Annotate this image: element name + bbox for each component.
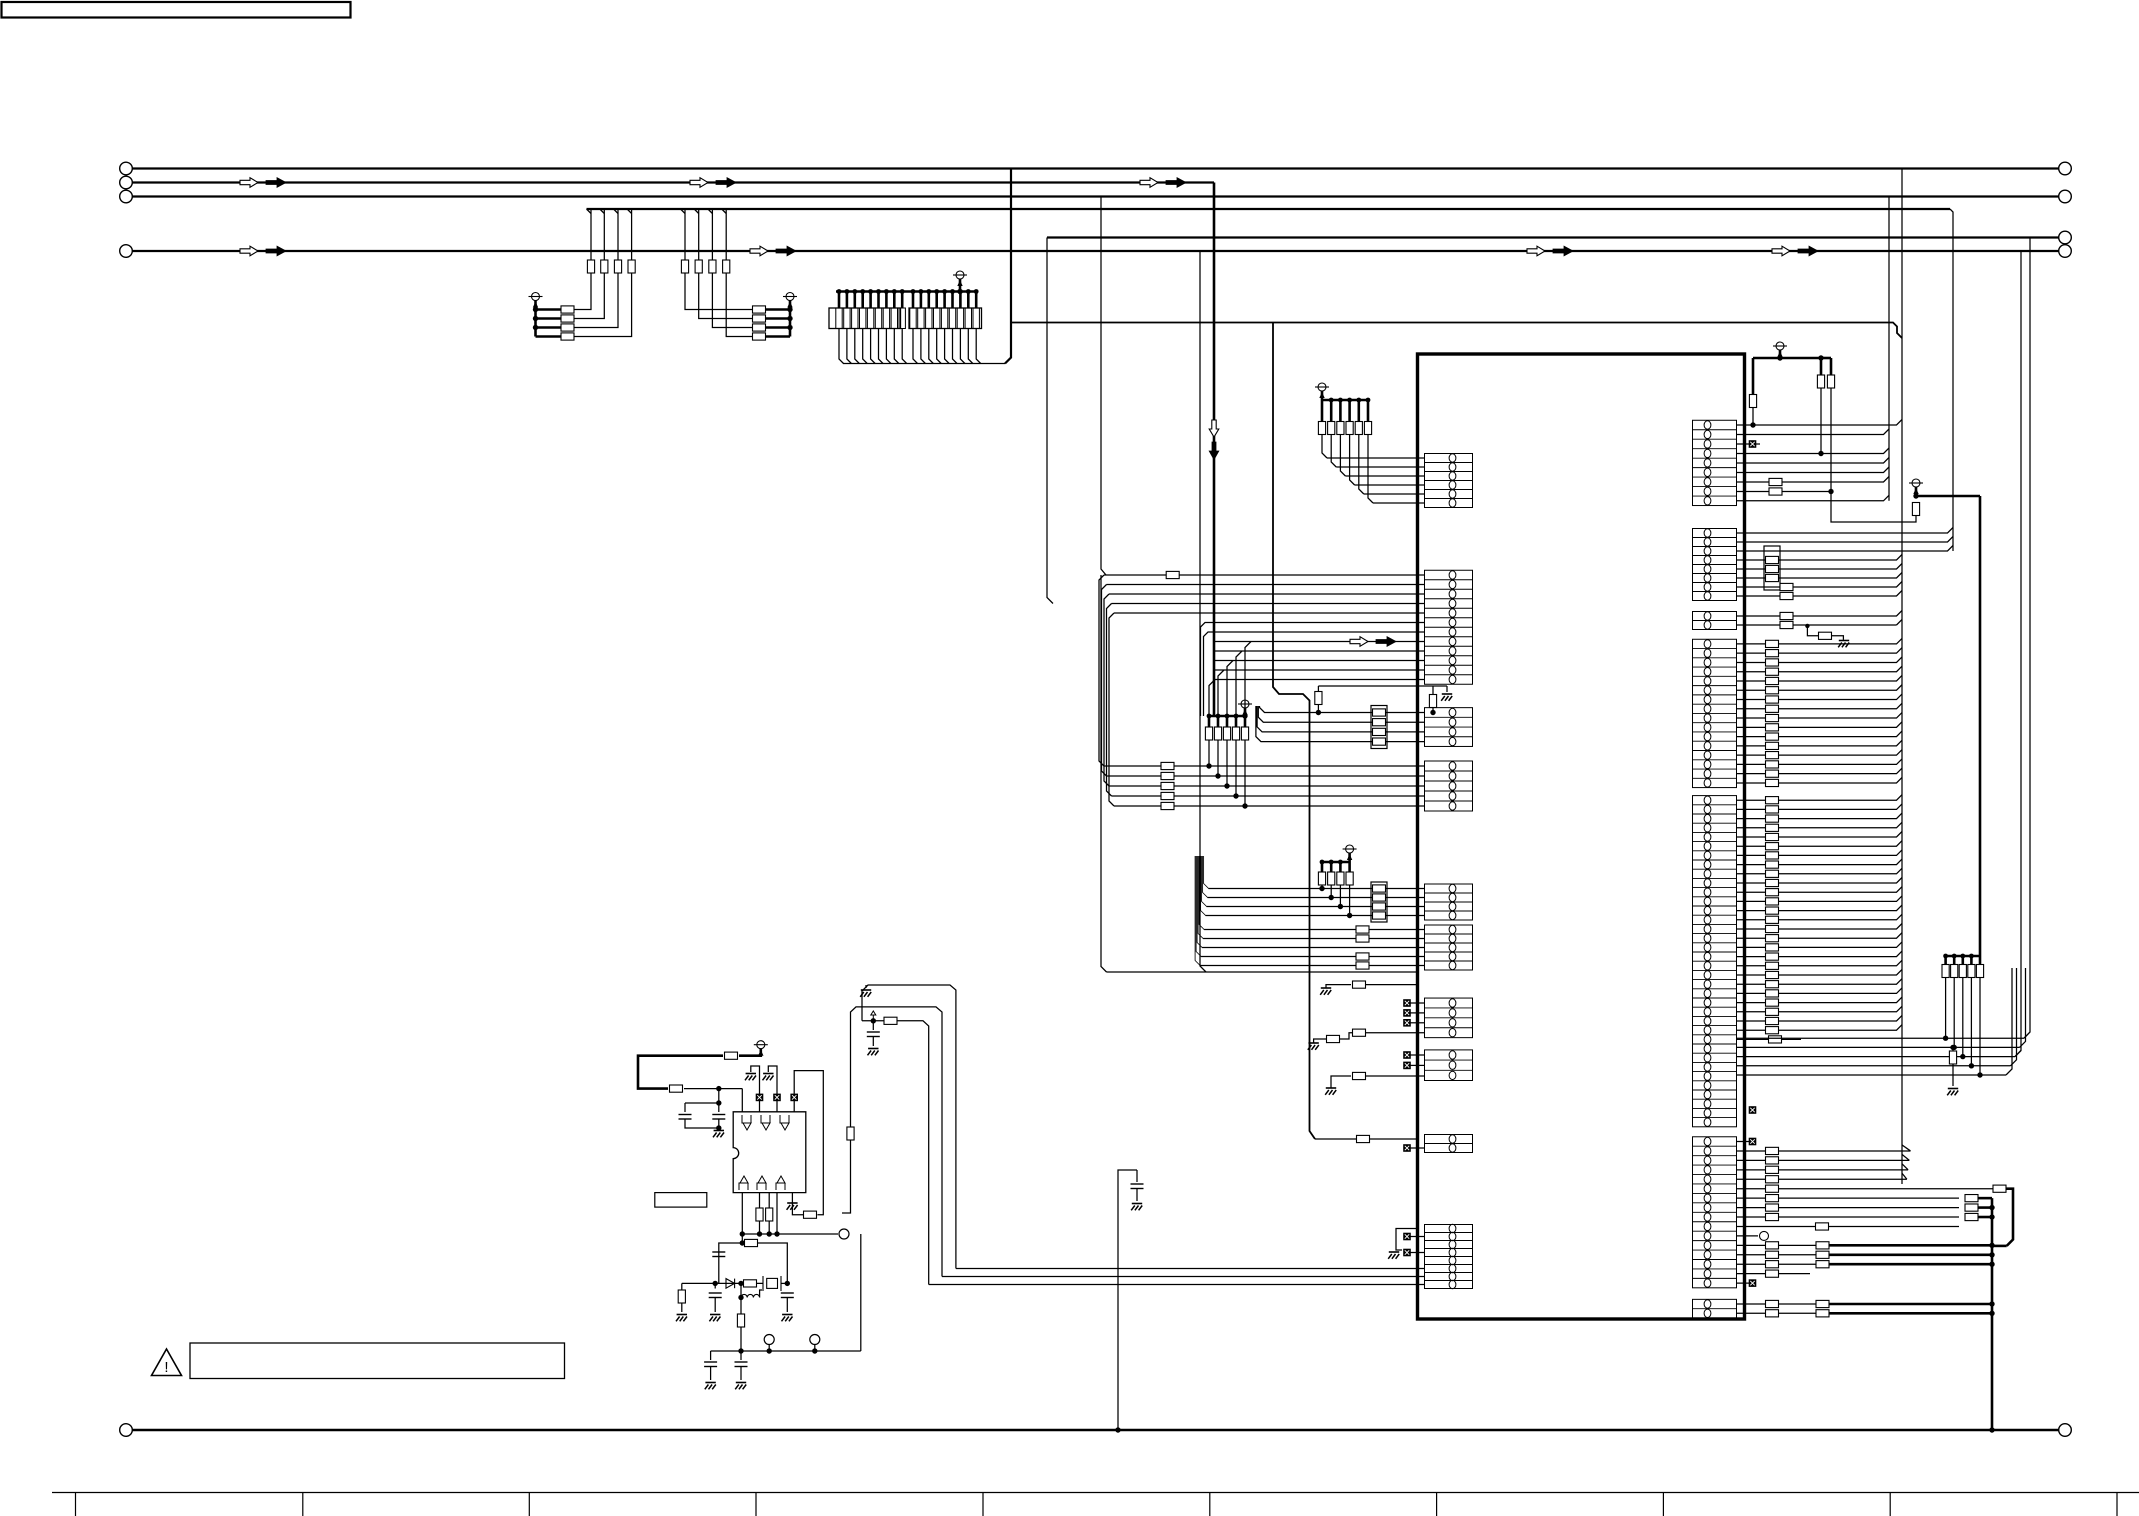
K-F heavy mid row bbox=[1737, 1254, 1817, 1256]
U2 pin1 wire bbox=[741, 1089, 743, 1112]
stub bbox=[893, 292, 896, 309]
dot bbox=[1366, 398, 1371, 403]
P2 bus vertical bbox=[789, 301, 792, 337]
dot bbox=[740, 1240, 745, 1245]
bottom table tick bbox=[1436, 1493, 1438, 1516]
K-E row wire + resistor bbox=[1737, 859, 1903, 865]
termination wire to collector bbox=[894, 329, 899, 364]
K-D row wire + resistor bbox=[1737, 768, 1903, 774]
resistor to ground below rows bbox=[1952, 1047, 1954, 1051]
wrap row wire bbox=[1737, 1037, 2025, 1039]
terminal L6 left bbox=[120, 245, 133, 258]
dot bbox=[852, 289, 857, 294]
ground-resistor net above J-G bbox=[1326, 985, 1351, 988]
K-A row1 wire into bus bbox=[1737, 420, 1903, 426]
termination resistor bar bbox=[875, 308, 881, 329]
K-E row wire + resistor bbox=[1737, 933, 1903, 939]
K-E row27 wire + resistor bbox=[1737, 1038, 1802, 1040]
testpoint TP3 bbox=[810, 1335, 820, 1345]
dot bbox=[950, 289, 955, 294]
K-F row 16 NC bbox=[1737, 1282, 1757, 1284]
B1 row 5 wire bbox=[1114, 612, 1425, 614]
K-E row wire + resistor bbox=[1737, 804, 1903, 810]
termination wire to collector bbox=[902, 329, 907, 364]
dot bbox=[892, 289, 897, 294]
dot bbox=[1960, 1054, 1965, 1059]
IC U1 outline bbox=[1418, 354, 1745, 1319]
arrow pair L2 a bbox=[240, 178, 258, 188]
wire down to B2 row bbox=[1235, 740, 1237, 796]
caution triangle bbox=[152, 1349, 182, 1376]
feed row C wire bbox=[929, 1284, 1425, 1286]
dot bbox=[1224, 783, 1229, 788]
B2 row 2 wire bbox=[1107, 775, 1425, 777]
down arrow pair on x1214 bbox=[1209, 420, 1219, 437]
termination resistor bar bbox=[965, 308, 971, 329]
K-A row9 wire bbox=[1737, 495, 1890, 501]
series resistor 2 bbox=[744, 1280, 757, 1287]
arrow pair L2 c bbox=[1140, 178, 1158, 188]
testpoint TP1 bbox=[839, 1229, 849, 1239]
pull-up resistor bbox=[1244, 716, 1247, 727]
junction dot bbox=[533, 307, 538, 312]
cap C-mid bbox=[1136, 1170, 1138, 1182]
K-D row wire + resistor bbox=[1737, 694, 1903, 700]
pull resistor bbox=[1330, 400, 1333, 422]
J-C resistor pack bbox=[1371, 706, 1387, 749]
no-connect stub bbox=[1411, 1236, 1425, 1238]
thick vertical x1992 to bottom rail bbox=[1991, 1198, 1994, 1430]
junction dot bbox=[787, 325, 792, 330]
K-D row wire + resistor bbox=[1737, 713, 1903, 719]
wire drop x1200 L6 to cross wire bbox=[1200, 251, 1206, 972]
stub bbox=[920, 292, 923, 309]
ground bbox=[782, 1314, 792, 1316]
K-B row wire + pack resistor bbox=[1737, 555, 1903, 561]
wire down to row bbox=[1979, 978, 1981, 1076]
bottom table tick bbox=[1209, 1493, 1211, 1516]
pack resistor bbox=[1373, 728, 1386, 735]
dot bbox=[884, 289, 889, 294]
connector K-C (2p) bbox=[1693, 612, 1737, 630]
bus bottom fan fillet bbox=[1902, 1173, 1907, 1179]
K-D row wire + resistor bbox=[1737, 675, 1903, 681]
pull resistor bbox=[1348, 400, 1351, 422]
group2 row 1 wire bbox=[685, 209, 790, 310]
big vertical bus x1902 from L1 bbox=[1901, 169, 1903, 1185]
dot bbox=[934, 289, 939, 294]
dot bbox=[1338, 398, 1343, 403]
stub bbox=[869, 292, 872, 309]
J-B lower row wire bbox=[1215, 679, 1425, 681]
wire down to B2 row bbox=[1226, 740, 1228, 786]
bus joint fillet bbox=[600, 209, 605, 214]
bottom rail wire bbox=[133, 1429, 2059, 1431]
bus joint fillet bbox=[627, 209, 632, 214]
pack resistor bbox=[1373, 894, 1386, 901]
bottom table tick bbox=[1889, 1493, 1891, 1516]
guard bus wire y322 bbox=[1011, 323, 1902, 339]
termination resistor bar bbox=[973, 308, 979, 329]
dot bbox=[1943, 954, 1948, 959]
U2 bottom pin wires bbox=[741, 1193, 743, 1243]
rail L5 bbox=[1047, 236, 2059, 238]
B2 row 1 wire bbox=[1104, 765, 1425, 767]
dot bbox=[1989, 1243, 1994, 1248]
K-A row6 wire bbox=[1737, 467, 1890, 473]
ground bbox=[714, 1130, 724, 1132]
dot bbox=[957, 289, 962, 294]
termination resistor bar bbox=[836, 308, 842, 329]
stub bbox=[877, 292, 880, 309]
termination resistor bar bbox=[844, 308, 850, 329]
series resistor on vertical bbox=[681, 260, 688, 273]
dot bbox=[1329, 860, 1334, 865]
wire drop x1047 L5 to bundle B1 bbox=[1047, 238, 1053, 604]
pack resistor bbox=[1373, 885, 1386, 892]
K-B row wire + pack resistor bbox=[1737, 573, 1903, 579]
K-F row wire + resistor bbox=[1737, 1169, 1909, 1171]
J-A row wire bbox=[1327, 457, 1425, 459]
K-E row wire + resistor bbox=[1737, 878, 1903, 884]
testpoint rail y1234 bbox=[742, 1233, 838, 1235]
K-E row wire + resistor bbox=[1737, 850, 1903, 856]
stub bbox=[975, 292, 978, 309]
B1 row1 resistor bbox=[1166, 571, 1179, 578]
inductor L1 bbox=[741, 1294, 760, 1297]
K-E row wire + resistor bbox=[1737, 887, 1903, 893]
termination top bus bbox=[836, 290, 978, 293]
wire drop x1011 L1 to header collector bbox=[1005, 169, 1011, 364]
stub bbox=[967, 292, 970, 309]
J-F row resistor bbox=[1356, 953, 1369, 960]
B1-B2 link vertical bbox=[1107, 604, 1112, 797]
termination wire to collector bbox=[929, 329, 934, 364]
wire down to row bbox=[1953, 978, 1955, 1048]
K-A row5 wire bbox=[1737, 458, 1890, 464]
K-E row wire + resistor bbox=[1737, 1025, 1903, 1031]
series resistor on vertical bbox=[709, 260, 716, 273]
series resistor bbox=[561, 324, 574, 331]
oscillator net bbox=[719, 1243, 743, 1283]
group1 row 3 wire bbox=[536, 209, 619, 328]
B1-B2 link vertical bbox=[1099, 575, 1104, 766]
rail riser to TP rail bbox=[860, 1234, 862, 1351]
K-E row wire + resistor bbox=[1737, 970, 1903, 976]
B1-B2 link vertical bbox=[1102, 585, 1107, 777]
K-D row wire + resistor bbox=[1737, 731, 1903, 737]
series resistor bbox=[753, 306, 766, 313]
termination wire to collector bbox=[968, 329, 973, 364]
osc row wire bbox=[682, 1282, 763, 1284]
J-E row wire bbox=[1204, 856, 1425, 889]
connector K-B (8p) bbox=[1693, 529, 1737, 601]
B2 row resistor bbox=[1161, 762, 1174, 769]
J-E resistor pack bbox=[1371, 882, 1387, 922]
rail L6 bbox=[133, 250, 2059, 252]
dot bbox=[1338, 860, 1343, 865]
termination resistor bar bbox=[899, 308, 905, 329]
J-F row resistor bbox=[1356, 926, 1369, 933]
dot bbox=[1225, 714, 1230, 719]
fan wire from bus up to row bbox=[1209, 680, 1215, 717]
terminal L6 right bbox=[2059, 245, 2072, 258]
connector J-G (4p) bbox=[1425, 998, 1473, 1038]
J-A row wire bbox=[1355, 484, 1425, 486]
dot bbox=[757, 1231, 762, 1236]
bus joint fillet bbox=[681, 209, 686, 214]
group1 row 4 wire bbox=[536, 209, 632, 337]
B2 row 3 wire bbox=[1109, 785, 1425, 787]
pull-up resistor bbox=[1235, 716, 1238, 727]
wrap row wire bbox=[1737, 1074, 2007, 1076]
dot bbox=[1989, 1427, 1994, 1432]
arrow pair L2 b bbox=[690, 178, 708, 188]
cap right bbox=[781, 1292, 794, 1294]
dot bbox=[1989, 1301, 1994, 1306]
J-B lower row wire bbox=[1215, 650, 1425, 652]
K-F row 10 with mid resistor bbox=[1737, 1225, 1960, 1227]
loop resistor bbox=[804, 1211, 817, 1218]
stub bbox=[885, 292, 888, 309]
stub bbox=[912, 292, 915, 309]
group1 row 1 wire bbox=[536, 209, 592, 310]
stub bbox=[927, 292, 930, 309]
K-D row wire + resistor bbox=[1737, 759, 1903, 765]
group2 row 2 wire bbox=[699, 209, 790, 319]
guard branch down x1273 with jog bbox=[1273, 323, 1315, 1140]
K-A row4 wire bbox=[1737, 448, 1890, 454]
testpoint TP2 bbox=[764, 1335, 774, 1345]
wrap row wire bbox=[1737, 1046, 2020, 1048]
caution note box bbox=[190, 1343, 565, 1379]
K-D row wire + resistor bbox=[1737, 657, 1903, 663]
dot bbox=[1115, 1427, 1120, 1432]
P1 bus vertical bbox=[534, 301, 537, 337]
stub bbox=[861, 292, 864, 309]
connector K-G (2p) bbox=[1693, 1299, 1737, 1318]
termination wire to collector bbox=[886, 329, 891, 364]
crystal Y1 bbox=[767, 1278, 778, 1288]
K-F heavy row 9 bbox=[1737, 1216, 1960, 1218]
bottom table tick bbox=[982, 1493, 984, 1516]
dot bbox=[1206, 763, 1211, 768]
termination wire to collector bbox=[847, 329, 852, 364]
B2 row resistor bbox=[1161, 792, 1174, 799]
pull resistor bbox=[1339, 862, 1342, 872]
ground bbox=[677, 1314, 687, 1316]
connector K-F (16p) bbox=[1693, 1137, 1737, 1288]
K-D row wire + resistor bbox=[1737, 638, 1903, 644]
svg-text:!: ! bbox=[164, 1359, 168, 1376]
group1 row 2 wire bbox=[536, 209, 605, 319]
pull resistor bbox=[1339, 400, 1342, 422]
power flag P7 bbox=[757, 1041, 765, 1049]
J-H row3 ground-resistor net bbox=[1331, 1076, 1351, 1088]
supply resistor R-b bbox=[670, 1085, 683, 1092]
terminal L3 left bbox=[120, 190, 133, 203]
K-C row2 wire + resistor + RC ground bbox=[1737, 624, 1897, 626]
wire drop x1101 L3 to bundle B1 bbox=[1101, 197, 1106, 576]
decoupling cap bbox=[872, 1021, 874, 1030]
terminal L3 right bbox=[2059, 190, 2072, 203]
wire drop x2021 L6 wrap to IC row bbox=[2015, 251, 2021, 1057]
K-E row wire + resistor bbox=[1737, 795, 1903, 801]
termination wire to collector bbox=[945, 329, 950, 364]
bus joint fillet bbox=[722, 209, 727, 214]
title box bbox=[2, 2, 351, 18]
K-F row 6 wire + resistors + corner down x2013 bbox=[1737, 1188, 1993, 1190]
K-E row wire + resistor bbox=[1737, 988, 1903, 994]
junction dot bbox=[533, 325, 538, 330]
J-B lower row wire bbox=[1215, 669, 1425, 671]
dot bbox=[1969, 954, 1974, 959]
K-F heavy mid row bbox=[1737, 1244, 1817, 1246]
termination wire to collector bbox=[871, 329, 876, 364]
no-connect stub bbox=[1411, 1252, 1425, 1254]
pack resistor bbox=[1373, 912, 1386, 919]
pull-up resistor bbox=[1217, 716, 1220, 727]
K-B row3 wrap bbox=[1737, 546, 1954, 552]
dot bbox=[1969, 1063, 1974, 1068]
stub bbox=[901, 292, 904, 309]
J-F row wire bbox=[1196, 856, 1424, 957]
stub bbox=[959, 292, 962, 309]
dot bbox=[716, 1100, 721, 1105]
J-A row wire bbox=[1364, 493, 1425, 495]
no-connect stub bbox=[1411, 1022, 1425, 1024]
bus bottom fan fillet bbox=[1902, 1154, 1909, 1160]
fan wire from bus up to row bbox=[1227, 661, 1233, 717]
pull-up resistor bbox=[1208, 716, 1211, 727]
termination wire to collector bbox=[937, 329, 942, 364]
no-connect stub bbox=[1749, 1106, 1757, 1114]
K-E row wire + resistor bbox=[1737, 905, 1903, 911]
B1 row 3 wire bbox=[1109, 593, 1425, 595]
terminal L2 left bbox=[120, 176, 133, 189]
dot bbox=[1347, 913, 1352, 918]
termination wire to collector bbox=[976, 329, 981, 364]
K-D row wire + resistor bbox=[1737, 722, 1903, 728]
ground bbox=[1442, 693, 1452, 695]
buffer symbol top bbox=[761, 1115, 766, 1123]
series resistor on vertical bbox=[723, 260, 730, 273]
bypass caps bbox=[718, 1089, 720, 1112]
K-E row wire + resistor bbox=[1737, 868, 1903, 874]
buffer symbol top bbox=[742, 1115, 747, 1123]
J-B lower row wire bbox=[1215, 641, 1425, 643]
K-D row wire + resistor bbox=[1737, 703, 1903, 709]
dot bbox=[876, 289, 881, 294]
bottom border table line bbox=[52, 1492, 2139, 1494]
termination resistor bar bbox=[949, 308, 955, 329]
bus joint fillet bbox=[614, 209, 619, 214]
K-F row wire + resistor bbox=[1737, 1178, 1907, 1180]
K-E row wire + resistor bbox=[1737, 942, 1903, 948]
stub bbox=[951, 292, 954, 309]
pull resistor bbox=[1321, 862, 1324, 872]
series resistor bbox=[753, 324, 766, 331]
J-A row wire bbox=[1336, 466, 1424, 468]
wire down to J-A row bbox=[1350, 435, 1355, 486]
K-F row wire + resistor bbox=[1737, 1150, 1911, 1152]
fan wire from bus up to row bbox=[1218, 670, 1224, 716]
connector J-A (6p) bbox=[1425, 454, 1473, 508]
dot bbox=[1977, 1072, 1982, 1077]
feed B series resistor bbox=[847, 1127, 854, 1140]
K-F heavy row 8 bbox=[1737, 1207, 1960, 1209]
diode D1 bbox=[726, 1279, 735, 1289]
B1-B2 link vertical bbox=[1109, 613, 1114, 806]
wrap riser b bbox=[2020, 968, 2026, 1047]
thick wire drop x1214 from L2 to pull-up bus bbox=[1213, 183, 1216, 717]
wire to J-E row bbox=[1339, 885, 1341, 907]
J-C row wire bbox=[1258, 706, 1424, 722]
K-E row wire + resistor bbox=[1737, 896, 1903, 902]
cross wire x1101 down to y972 bbox=[1101, 575, 1107, 972]
wrap riser e bbox=[2006, 968, 2012, 1075]
wire down to J-A row bbox=[1331, 435, 1336, 468]
link resistor bbox=[884, 1017, 897, 1024]
dot bbox=[1233, 793, 1238, 798]
wire drop x1889 L3 collecting IC rows bbox=[1888, 197, 1890, 501]
dot bbox=[1750, 422, 1755, 427]
no-connect stub bbox=[1411, 1012, 1425, 1014]
pull-up bus y716 bbox=[1209, 715, 1245, 718]
series resistor on vertical bbox=[601, 260, 608, 273]
J-F row wire bbox=[1197, 856, 1424, 948]
junction dot bbox=[787, 307, 792, 312]
buffer symbol bottom bbox=[777, 1176, 785, 1183]
cap osc top left bbox=[712, 1251, 725, 1253]
K-D row wire + resistor bbox=[1737, 740, 1903, 746]
stub bbox=[838, 292, 841, 309]
wrap fillet x2021 bbox=[2015, 1051, 2021, 1057]
wire down to J-A row bbox=[1359, 435, 1364, 495]
J-B lower row wire bbox=[1215, 631, 1425, 633]
cap C-b bbox=[712, 1114, 725, 1116]
stub bbox=[846, 292, 849, 309]
buffer symbol bottom bbox=[740, 1176, 748, 1183]
K-D row wire + resistor bbox=[1737, 777, 1903, 783]
wire drop x2030 L5 wrap to IC row bbox=[2024, 238, 2030, 1039]
guard wire into IC pin y1139 with resistor bbox=[1315, 1138, 1418, 1140]
K-E row wire + resistor bbox=[1737, 813, 1903, 819]
arrow pair L6 d bbox=[1772, 246, 1790, 256]
wrap fillet x2030 bbox=[2024, 1032, 2030, 1038]
pull resistor bbox=[1367, 400, 1370, 422]
termination wire to collector bbox=[855, 329, 860, 364]
K-A row2 wire into L3 drop bbox=[1737, 429, 1890, 435]
group2 row 3 wire bbox=[712, 209, 790, 328]
J-F row wire bbox=[1199, 856, 1424, 930]
K-E row wire + resistor bbox=[1737, 822, 1903, 828]
J-F row resistor bbox=[1356, 935, 1369, 942]
terminal bottom right bbox=[2059, 1424, 2072, 1437]
arrow pair on J-B row bbox=[1350, 637, 1368, 647]
power flag P6 bbox=[1346, 845, 1354, 853]
no-connect stub bbox=[1411, 1002, 1425, 1004]
B1 row 4 wire bbox=[1112, 603, 1425, 605]
pack resistor bbox=[1373, 719, 1386, 726]
series resistor bbox=[753, 333, 766, 340]
thick wire down x1980 bbox=[1979, 496, 1982, 956]
ground bracket on J-K bbox=[1396, 1229, 1418, 1251]
dot bbox=[900, 289, 905, 294]
dot bbox=[926, 289, 931, 294]
rail L1 top supply bbox=[133, 167, 2059, 169]
terminal bottom left bbox=[120, 1424, 133, 1437]
